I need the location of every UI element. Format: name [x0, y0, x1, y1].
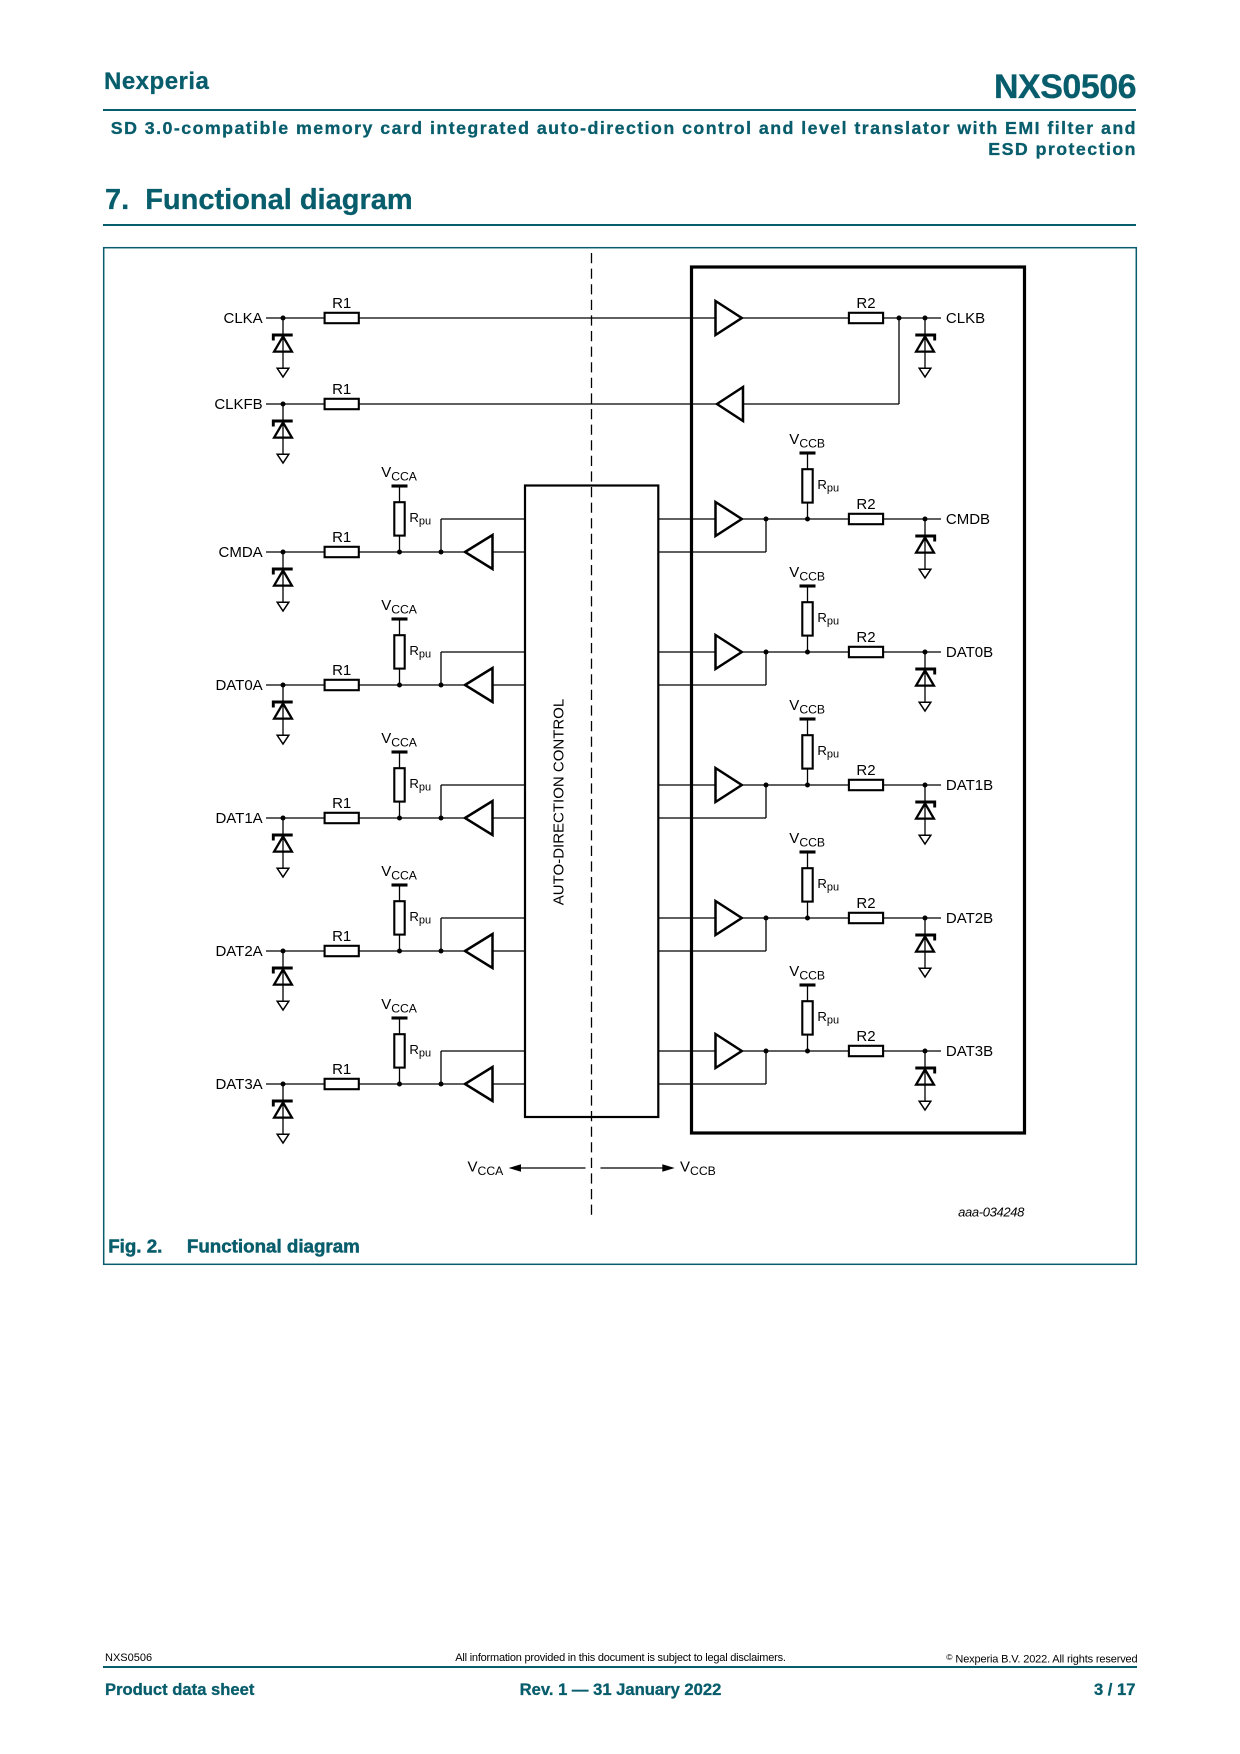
svg-text:CLKB: CLKB — [946, 310, 985, 327]
svg-text:Rpu: Rpu — [409, 643, 431, 661]
svg-text:AUTO-DIRECTION CONTROL: AUTO-DIRECTION CONTROL — [551, 699, 568, 905]
svg-text:R2: R2 — [856, 895, 875, 912]
svg-text:VCCA: VCCA — [381, 996, 418, 1015]
svg-text:R1: R1 — [332, 795, 351, 812]
svg-text:VCCA: VCCA — [381, 863, 418, 882]
svg-text:VCCA: VCCA — [381, 597, 418, 616]
svg-text:VCCA: VCCA — [468, 1159, 505, 1178]
svg-text:Rpu: Rpu — [409, 909, 431, 927]
svg-text:DAT0B: DAT0B — [946, 644, 993, 661]
svg-text:CMDB: CMDB — [946, 511, 990, 528]
svg-text:VCCA: VCCA — [381, 730, 418, 749]
svg-text:VCCA: VCCA — [381, 464, 418, 483]
svg-text:R2: R2 — [856, 1028, 875, 1045]
svg-text:DAT0A: DAT0A — [215, 677, 262, 694]
svg-text:Rpu: Rpu — [409, 510, 431, 528]
svg-text:R1: R1 — [332, 662, 351, 679]
svg-text:R1: R1 — [332, 381, 351, 398]
svg-text:CLKFB: CLKFB — [214, 396, 262, 413]
svg-text:DAT3B: DAT3B — [946, 1043, 993, 1060]
svg-text:DAT2B: DAT2B — [946, 910, 993, 927]
svg-text:R2: R2 — [856, 295, 875, 312]
svg-text:R1: R1 — [332, 1061, 351, 1078]
svg-text:R1: R1 — [332, 295, 351, 312]
svg-text:aaa-034248: aaa-034248 — [958, 1205, 1025, 1220]
svg-text:CMDA: CMDA — [219, 544, 263, 561]
svg-text:R2: R2 — [856, 496, 875, 513]
svg-text:DAT3A: DAT3A — [215, 1076, 262, 1093]
svg-text:R2: R2 — [856, 629, 875, 646]
svg-text:DAT1B: DAT1B — [946, 777, 993, 794]
svg-text:R1: R1 — [332, 529, 351, 546]
svg-text:Functional diagram: Functional diagram — [187, 1235, 360, 1256]
svg-text:Rpu: Rpu — [409, 776, 431, 794]
svg-text:DAT1A: DAT1A — [215, 810, 262, 827]
svg-text:VCCB: VCCB — [680, 1159, 716, 1178]
svg-text:Fig. 2.: Fig. 2. — [108, 1235, 162, 1256]
svg-text:R1: R1 — [332, 928, 351, 945]
svg-text:Rpu: Rpu — [409, 1042, 431, 1060]
svg-text:R2: R2 — [856, 762, 875, 779]
svg-text:DAT2A: DAT2A — [215, 943, 262, 960]
svg-text:CLKA: CLKA — [224, 310, 263, 327]
